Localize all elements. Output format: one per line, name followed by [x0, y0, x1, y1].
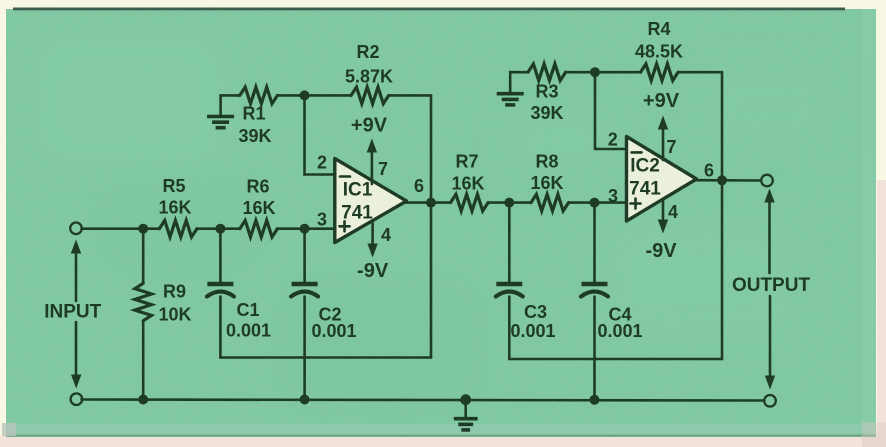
wire R4 vertical down — [721, 72, 724, 181]
node IC1 output — [426, 198, 436, 208]
label IC1 741 — [341, 203, 373, 224]
label C4 — [608, 305, 631, 325]
input terminal bottom circle — [71, 393, 83, 405]
wire C4 bottom lead to ground rail — [593, 297, 596, 400]
label OUTPUT — [732, 275, 811, 296]
ground G1 — [207, 117, 234, 128]
node C2 bottom — [300, 395, 310, 405]
resistor R3 — [528, 64, 566, 81]
label R1 — [242, 104, 265, 124]
resistor R1 — [240, 87, 278, 104]
pin7 arrow head IC2 — [658, 116, 668, 130]
label +9V IC1 — [351, 115, 388, 137]
label R8 — [535, 152, 558, 172]
label pin 6 IC1 — [414, 176, 424, 196]
node C1 top — [215, 224, 225, 234]
resistor R5 — [159, 220, 197, 237]
pin4 arrow head IC1 — [367, 244, 377, 258]
label pin 3 IC1 — [317, 210, 327, 230]
label R5 value 16K — [158, 198, 191, 218]
label -9V IC1 — [357, 260, 389, 282]
wire IC1 out — [405, 201, 451, 204]
panel bottom edge dark line — [6, 435, 876, 437]
node ground rail center — [460, 394, 471, 405]
output arrow up head — [764, 189, 774, 203]
input arrow down head — [71, 375, 81, 389]
pin7 arrow line IC1 — [371, 152, 374, 184]
label R9 value 10K — [159, 305, 192, 325]
pin4 arrow line IC1 — [371, 221, 374, 244]
label pin 6 IC2 — [704, 161, 714, 181]
label R2 value 5.87K — [345, 67, 393, 87]
op-amp IC2 body — [627, 137, 697, 222]
label C3 — [524, 302, 547, 322]
wire node to R4 — [595, 71, 641, 74]
input arrow upper line — [75, 252, 78, 301]
label R1 value 39K — [238, 126, 271, 146]
wire feedback2 vertical — [721, 180, 724, 359]
label IC1 — [343, 180, 373, 201]
wire ground stub — [464, 400, 467, 417]
label -9V IC2 — [645, 240, 677, 262]
panel bottom light band — [6, 424, 876, 436]
wire C1 top lead — [219, 229, 222, 283]
label R6 — [246, 177, 269, 197]
node R9 bottom — [138, 395, 148, 405]
resistor R9 — [135, 283, 152, 321]
label R2 — [356, 42, 379, 62]
bottom-left corner scan smudge — [2, 423, 16, 436]
pin7 arrow line IC2 — [662, 129, 665, 160]
IC2 plus mark — [631, 199, 641, 209]
label R6 value 16K — [242, 198, 275, 218]
label IC2 — [630, 156, 660, 177]
wire R9 lower — [142, 321, 145, 400]
capacitor C2 — [291, 284, 318, 297]
ground G2 — [497, 94, 524, 105]
wire R7 to C3 node — [488, 201, 531, 204]
ground rail — [82, 400, 765, 401]
label pin 7 IC2 — [666, 137, 676, 157]
input terminal top circle — [70, 223, 82, 235]
wire gnd2 corner — [510, 72, 528, 92]
label C3 value 0.001 — [510, 321, 555, 341]
wire C4 top lead — [593, 203, 596, 283]
label R9 — [163, 282, 186, 302]
pin4 arrow head IC2 — [658, 220, 668, 234]
label pin 4 IC1 — [381, 225, 391, 245]
capacitor C4 — [581, 284, 608, 297]
pin4 arrow line IC2 — [662, 199, 665, 221]
IC2 minus mark — [632, 151, 642, 154]
wire R9 upper — [142, 229, 145, 284]
label R4 value 48.5K — [635, 42, 683, 62]
output terminal top circle — [761, 175, 773, 187]
node C4 top / pin3 IC2 — [590, 198, 600, 208]
wire pin2 IC2 — [595, 72, 628, 149]
label pin 2 IC1 — [317, 153, 327, 173]
output arrow lower line — [769, 296, 772, 376]
input arrow lower line — [75, 322, 78, 375]
wire pin2 IC1 — [305, 95, 337, 174]
node C2 top / pin3 — [300, 224, 310, 234]
wire node to R2 — [305, 94, 352, 97]
IC1 minus mark — [340, 175, 350, 178]
pink right page strip — [877, 180, 886, 447]
wire IC2 out — [695, 179, 762, 182]
wire C2 top lead — [303, 229, 306, 283]
right edge light column — [862, 9, 876, 424]
wire R5 to C1 node — [197, 227, 240, 230]
label pin 7 IC1 — [378, 159, 388, 179]
ground G3 — [454, 419, 478, 430]
node IC2 output — [717, 175, 727, 185]
wire R6 to pin3 — [277, 227, 336, 230]
panel top shadow line — [13, 8, 845, 11]
output arrow upper line — [768, 201, 771, 273]
node R1-R2 — [300, 90, 310, 100]
wire C1 bottom lead — [219, 297, 222, 358]
wire feedback1 horizontal — [220, 356, 431, 359]
input arrow up head — [71, 240, 81, 254]
resistor R8 — [531, 194, 569, 211]
label C1 — [236, 300, 259, 320]
label R8 value 16K — [530, 173, 563, 193]
label R3 — [535, 82, 558, 102]
wire input to R5 — [82, 227, 160, 230]
label R7 — [455, 152, 478, 172]
capacitor C1 — [207, 284, 234, 297]
bottom-right corner scan smudge — [862, 422, 886, 447]
wire feedback2 horizontal — [509, 358, 722, 361]
node R3-R4 — [590, 67, 600, 77]
node R9 top — [138, 224, 148, 234]
pink bottom page strip — [0, 436, 886, 447]
wire R8 to pin3 IC2 — [569, 201, 627, 204]
wire C2 bottom lead to ground rail — [303, 297, 306, 400]
label C4 value 0.001 — [597, 321, 642, 341]
node C3 top — [504, 198, 514, 208]
output terminal bottom circle — [764, 395, 776, 407]
panel mottling — [40, 40, 840, 390]
label +9V IC2 — [643, 90, 680, 112]
resistor R7 — [451, 194, 489, 211]
node C4 bottom — [590, 395, 600, 405]
label C1 value 0.001 — [226, 321, 271, 341]
wire C3 top lead — [508, 203, 511, 283]
label IC2 741 — [629, 179, 661, 200]
label C2 value 0.001 — [311, 321, 356, 341]
wire gnd1 corner — [221, 95, 240, 115]
wire R3 to node — [566, 71, 595, 74]
output arrow down head — [765, 376, 775, 390]
op-amp IC1 body — [335, 159, 407, 243]
wire R2 to feedback vertical — [389, 94, 431, 97]
label R7 value 16K — [451, 174, 484, 194]
resistor R6 — [240, 220, 278, 237]
label C2 — [318, 304, 341, 324]
label INPUT — [44, 302, 101, 323]
resistor R4 — [641, 64, 679, 81]
label R5 — [162, 176, 185, 196]
IC1 plus mark — [340, 221, 350, 231]
wire C3 bottom lead — [508, 297, 511, 360]
wire R1 to node — [277, 94, 304, 97]
label pin 3 IC2 — [608, 186, 618, 206]
wire R4 to feedback vertical — [678, 71, 722, 74]
label pin 2 IC2 — [608, 130, 618, 150]
label pin 4 IC2 — [668, 202, 678, 222]
label R4 — [647, 19, 670, 39]
label R3 value 39K — [530, 103, 563, 123]
wire R2 vertical down — [430, 95, 433, 202]
capacitor C3 — [496, 284, 523, 297]
resistor R2 — [351, 87, 389, 104]
pin7 arrow head IC1 — [367, 139, 377, 153]
wire feedback1 vertical — [430, 203, 433, 358]
